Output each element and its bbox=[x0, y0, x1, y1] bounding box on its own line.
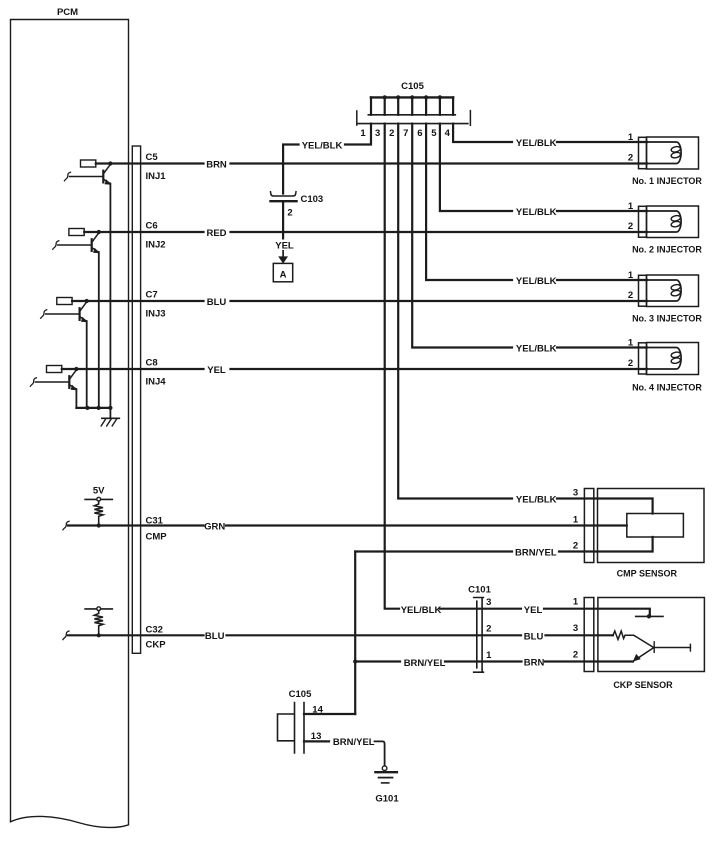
emitter rail bbox=[76, 406, 112, 410]
svg-text:C7: C7 bbox=[146, 290, 158, 301]
svg-text:1: 1 bbox=[486, 650, 492, 661]
svg-text:3: 3 bbox=[375, 128, 380, 139]
svg-text:C8: C8 bbox=[146, 358, 158, 369]
svg-text:CKP SENSOR: CKP SENSOR bbox=[613, 680, 673, 690]
wire C105 pin6 to injector 3 bbox=[426, 124, 647, 301]
svg-text:14: 14 bbox=[312, 705, 323, 716]
svg-text:BRN/YEL: BRN/YEL bbox=[515, 547, 557, 558]
svg-text:INJ1: INJ1 bbox=[146, 171, 167, 182]
svg-text:2: 2 bbox=[486, 624, 491, 635]
svg-text:2: 2 bbox=[287, 208, 292, 219]
CMP sensor bbox=[584, 489, 704, 579]
wire C105 pin5 to injector 2 bbox=[440, 124, 647, 232]
wire BLU C101 to CKP bbox=[524, 623, 578, 642]
connector C101 bbox=[468, 584, 492, 672]
transistor Q3 bbox=[41, 298, 89, 408]
CKP sensor bbox=[584, 598, 704, 690]
svg-text:BRN/YEL: BRN/YEL bbox=[333, 737, 375, 748]
svg-text:6: 6 bbox=[417, 128, 422, 139]
svg-text:C32: C32 bbox=[146, 624, 163, 635]
svg-text:2: 2 bbox=[573, 650, 578, 661]
wire C5/BRN row bbox=[110, 152, 647, 182]
svg-text:CKP: CKP bbox=[146, 639, 167, 650]
svg-text:13: 13 bbox=[311, 731, 322, 742]
svg-text:YEL/BLK: YEL/BLK bbox=[516, 343, 557, 354]
transistor Q4 bbox=[30, 366, 78, 408]
svg-text:YEL: YEL bbox=[207, 365, 226, 376]
svg-text:No. 2 INJECTOR: No. 2 INJECTOR bbox=[632, 245, 702, 255]
svg-text:C105: C105 bbox=[289, 689, 312, 700]
ground G101 bbox=[375, 766, 399, 805]
resistor 5V pull-up CKP bbox=[85, 607, 112, 638]
svg-text:5V: 5V bbox=[93, 486, 105, 497]
wire C7/BLU row bbox=[87, 290, 647, 320]
svg-text:1: 1 bbox=[573, 515, 579, 526]
svg-text:G101: G101 bbox=[375, 794, 399, 805]
svg-text:C103: C103 bbox=[301, 194, 324, 205]
svg-text:YEL/BLK: YEL/BLK bbox=[516, 138, 557, 149]
svg-text:YEL/BLK: YEL/BLK bbox=[302, 140, 343, 151]
connector C105 bottom bbox=[278, 689, 385, 766]
wire C105 pin1 YEL/BLK bbox=[283, 124, 371, 194]
resistor 5V pull-up CMP bbox=[85, 486, 112, 528]
svg-text:C105: C105 bbox=[401, 81, 424, 92]
svg-text:2: 2 bbox=[628, 290, 633, 301]
injector 3 bbox=[632, 275, 702, 324]
svg-text:INJ3: INJ3 bbox=[146, 308, 166, 319]
svg-text:BRN: BRN bbox=[524, 658, 545, 669]
svg-text:1: 1 bbox=[628, 338, 634, 349]
wire C105 pin4 to injector 1 bbox=[453, 124, 647, 164]
injector 2 bbox=[632, 206, 702, 255]
svg-text:C5: C5 bbox=[146, 152, 159, 163]
wire C105 pin2 to CMP YEL/BLK bbox=[398, 124, 652, 514]
chassis ground bbox=[101, 408, 119, 426]
wire BRN/YEL vertical bbox=[353, 552, 357, 715]
injector 4 bbox=[632, 343, 702, 393]
svg-text:BRN: BRN bbox=[206, 159, 227, 170]
svg-text:No. 3 INJECTOR: No. 3 INJECTOR bbox=[632, 314, 702, 324]
svg-text:2: 2 bbox=[389, 128, 394, 139]
svg-text:YEL/BLK: YEL/BLK bbox=[516, 494, 557, 505]
svg-text:1: 1 bbox=[360, 128, 366, 139]
PCM connector strip bbox=[132, 146, 140, 653]
connector C105 top bbox=[357, 81, 471, 139]
wire BRN/YEL to C101 BRN bbox=[355, 650, 633, 670]
svg-text:PCM: PCM bbox=[57, 7, 78, 18]
wire C105 pin7 to injector 4 bbox=[412, 124, 647, 369]
svg-text:BLU: BLU bbox=[205, 631, 225, 642]
svg-text:1: 1 bbox=[573, 597, 579, 608]
transistor Q1 bbox=[64, 160, 112, 408]
svg-text:4: 4 bbox=[445, 128, 451, 139]
svg-text:BRN/YEL: BRN/YEL bbox=[404, 658, 446, 669]
wire C105 pin3 to C101 YEL/BLK bbox=[385, 124, 521, 616]
svg-text:1: 1 bbox=[628, 201, 634, 212]
injector 1 bbox=[632, 137, 702, 186]
svg-text:GRN: GRN bbox=[204, 521, 225, 532]
svg-text:YEL/BLK: YEL/BLK bbox=[401, 605, 442, 616]
svg-text:YEL/BLK: YEL/BLK bbox=[516, 207, 557, 218]
wire C31/GRN row bbox=[63, 515, 627, 543]
wire YEL to A bbox=[275, 201, 294, 263]
svg-text:2: 2 bbox=[573, 541, 578, 552]
svg-text:CMP: CMP bbox=[146, 532, 168, 543]
svg-text:C101: C101 bbox=[468, 584, 491, 595]
svg-text:7: 7 bbox=[403, 128, 408, 139]
svg-text:1: 1 bbox=[628, 132, 634, 143]
svg-text:YEL: YEL bbox=[524, 605, 543, 616]
svg-text:3: 3 bbox=[573, 488, 578, 499]
svg-text:C6: C6 bbox=[146, 221, 158, 232]
wire YEL C101 to CKP bbox=[524, 597, 650, 617]
svg-text:3: 3 bbox=[573, 623, 578, 634]
wire C8/YEL row bbox=[76, 358, 647, 388]
node A (off-page connector) bbox=[273, 263, 292, 281]
svg-text:1: 1 bbox=[628, 270, 634, 281]
capacitor C103 bbox=[271, 192, 324, 219]
svg-text:YEL: YEL bbox=[275, 240, 294, 251]
svg-text:YEL/BLK: YEL/BLK bbox=[516, 276, 557, 287]
svg-text:INJ2: INJ2 bbox=[146, 239, 166, 250]
svg-text:BLU: BLU bbox=[207, 297, 227, 308]
svg-text:2: 2 bbox=[628, 221, 633, 232]
svg-text:CMP SENSOR: CMP SENSOR bbox=[617, 569, 678, 579]
svg-text:INJ4: INJ4 bbox=[146, 376, 167, 387]
wire C6/RED row bbox=[99, 221, 647, 251]
svg-text:5: 5 bbox=[431, 128, 437, 139]
svg-text:3: 3 bbox=[486, 597, 491, 608]
svg-text:No. 4 INJECTOR: No. 4 INJECTOR bbox=[632, 383, 702, 393]
svg-text:A: A bbox=[280, 270, 287, 281]
wire C32/BLU row bbox=[63, 624, 613, 650]
svg-text:2: 2 bbox=[628, 358, 633, 369]
transistor Q2 bbox=[53, 229, 101, 408]
wire CMP BRN/YEL bbox=[355, 537, 652, 558]
svg-text:No. 1 INJECTOR: No. 1 INJECTOR bbox=[632, 176, 702, 186]
svg-text:C31: C31 bbox=[146, 516, 164, 527]
PCM box bbox=[11, 7, 129, 827]
svg-text:2: 2 bbox=[628, 153, 633, 164]
svg-text:BLU: BLU bbox=[524, 631, 544, 642]
svg-text:RED: RED bbox=[206, 228, 226, 239]
